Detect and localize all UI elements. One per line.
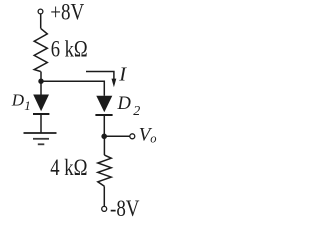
wire D2 cathode to node B xyxy=(103,115,105,136)
terminal -8V xyxy=(102,206,107,211)
ground line 2 xyxy=(33,138,49,140)
wire terminal to resistor R1 xyxy=(40,14,42,28)
svg-text:6 kΩ: 6 kΩ xyxy=(51,37,88,62)
wire node A to diode D2 anode xyxy=(41,81,104,96)
svg-text:-8V: -8V xyxy=(110,196,140,221)
svg-text:I: I xyxy=(118,64,127,86)
wire resistor to terminal -8V xyxy=(103,186,105,206)
diode D1 triangle xyxy=(33,95,49,112)
current arrow head xyxy=(112,79,117,88)
wire D1 cathode to ground xyxy=(40,114,42,133)
diode D2 triangle xyxy=(96,96,112,113)
wire node B to resistor R2 xyxy=(103,136,105,155)
node A junction dot xyxy=(38,79,43,84)
terminal +8V xyxy=(38,9,43,14)
resistor 6 kOhm xyxy=(34,28,47,71)
node B junction dot xyxy=(101,134,107,140)
diode D2 cathode bar xyxy=(95,114,112,116)
ground line 1 xyxy=(24,132,57,134)
svg-text:D: D xyxy=(117,94,132,114)
resistor 4 kOhm xyxy=(98,155,111,186)
svg-text:+8V: +8V xyxy=(50,0,84,25)
terminal Vo xyxy=(130,134,135,139)
wire node B to output terminal xyxy=(104,135,129,137)
current arrow I xyxy=(86,72,114,80)
ground line 3 xyxy=(38,143,45,145)
wire node A to diode D1 anode xyxy=(40,81,42,94)
svg-text:4 kΩ: 4 kΩ xyxy=(50,155,87,180)
diode D1 cathode bar xyxy=(33,113,49,115)
svg-text:o: o xyxy=(150,132,156,146)
svg-text:1: 1 xyxy=(24,98,31,113)
svg-text:D: D xyxy=(11,90,25,109)
wire resistor to node A xyxy=(40,72,42,82)
svg-text:2: 2 xyxy=(133,104,140,119)
